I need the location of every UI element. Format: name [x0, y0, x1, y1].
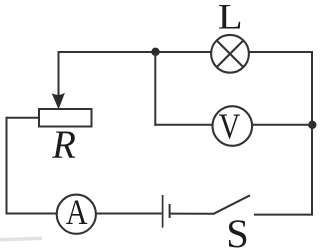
resistor R (rheostat box) [39, 109, 92, 127]
wire voltmeter branch horizontal right [252, 124, 312, 126]
svg-text:V: V [219, 106, 241, 146]
node junction top (dot) [151, 48, 159, 56]
scan artifact streak bottom left [0, 237, 42, 242]
wire battery to switch [171, 213, 214, 215]
voltmeter V1 [213, 106, 253, 146]
wire switch to right [254, 214, 313, 216]
wire left upper vertical (to rheostat arrow) [58, 51, 60, 98]
lamp L [211, 35, 249, 73]
wire bottom left [6, 213, 58, 215]
wire voltmeter branch horizontal left [154, 124, 212, 126]
wire top horizontal left segment [58, 51, 212, 53]
svg-text:R: R [51, 122, 76, 167]
battery cell: long plate [162, 195, 164, 228]
wire rheostat to left [6, 117, 40, 119]
wire top horizontal right segment [249, 51, 313, 53]
svg-text:L: L [218, 0, 243, 36]
battery cell: short plate [169, 204, 171, 218]
switch S blade [213, 195, 250, 214]
arrowhead of rheostat wiper [52, 93, 65, 110]
wire ammeter to battery [96, 213, 162, 215]
svg-text:A: A [66, 192, 88, 232]
svg-text:S: S [226, 211, 249, 248]
ammeter A1 [57, 195, 96, 234]
node junction right (dot) [308, 121, 316, 129]
wire voltmeter branch vertical [154, 52, 156, 126]
wire right vertical [311, 51, 313, 216]
wire left vertical [6, 117, 8, 215]
